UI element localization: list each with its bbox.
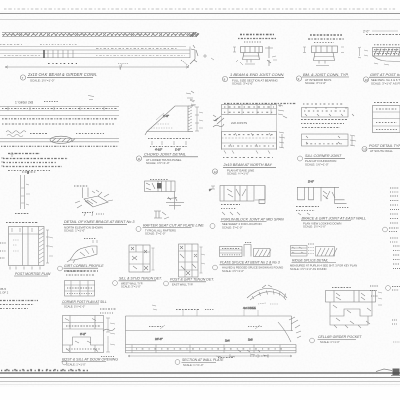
svg-text:3'-2": 3'-2" bbox=[80, 332, 86, 336]
detail 17 big square mortise plan bbox=[0, 223, 53, 270]
detail 19 title bbox=[113, 277, 162, 289]
svg-text:10: 10 bbox=[365, 78, 369, 82]
bottom left scale bar micro text bbox=[1, 369, 88, 371]
detail 13 purlin framing plan bbox=[209, 186, 265, 216]
detail 9 title bbox=[362, 144, 400, 153]
detail 1 roof plank hatched band bbox=[2, 33, 199, 37]
detail 17 title bbox=[0, 272, 51, 295]
svg-text:SCALE: ¾"=1'-0": SCALE: ¾"=1'-0" bbox=[227, 172, 249, 176]
detail 1 lower dimension line with arrows bbox=[5, 64, 189, 71]
top border line outer bbox=[0, 13, 400, 15]
svg-text:9": 9" bbox=[209, 188, 212, 192]
detail 7 title bbox=[212, 158, 276, 176]
svg-text:2'-0": 2'-0" bbox=[308, 180, 314, 184]
right edge dimension text column bbox=[390, 188, 399, 223]
svg-text:DETAIL OF KNEE BRACE AT BENT N: DETAIL OF KNEE BRACE AT BENT No 3 bbox=[64, 220, 135, 224]
svg-text:2x10 OAK BEAM & GIRDER CONN.: 2x10 OAK BEAM & GIRDER CONN. bbox=[27, 72, 97, 77]
svg-text:POST & SILL AT DOOR OPENING: POST & SILL AT DOOR OPENING bbox=[62, 357, 118, 361]
svg-text:SCALE: 1"=1'-0": SCALE: 1"=1'-0" bbox=[64, 229, 85, 233]
detail 27 long wall section top lines bbox=[126, 305, 302, 358]
detail 5 notes block bbox=[1, 152, 68, 171]
detail 19 stud section A bbox=[129, 245, 155, 272]
svg-text:SCALE: 1½"=1'-0": SCALE: 1½"=1'-0" bbox=[305, 162, 329, 166]
svg-text:RIDGE SPLICE DETAIL: RIDGE SPLICE DETAIL bbox=[292, 258, 328, 262]
detail 1 long girder beam elevation bbox=[0, 45, 190, 59]
right edge circled note 2 bbox=[370, 286, 400, 324]
detail 4 top dim text bbox=[363, 30, 398, 34]
detail 24 upper text bbox=[64, 271, 98, 275]
svg-text:SCALE: 1½"=1'-0": SCALE: 1½"=1'-0" bbox=[222, 269, 244, 273]
detail 12 rafter seat cut bbox=[145, 180, 185, 220]
svg-text:EAST WALL TYP.: EAST WALL TYP. bbox=[172, 283, 193, 287]
svg-text:2x4: 2x4 bbox=[225, 339, 230, 343]
bottom border line 3 bbox=[0, 381, 400, 383]
svg-text:2x10 BEAM AT NORTH BAY: 2x10 BEAM AT NORTH BAY bbox=[223, 163, 273, 167]
svg-text:SCALE: 3"=1'-0": SCALE: 3"=1'-0" bbox=[121, 285, 141, 289]
detail 1 right end bracket bbox=[181, 45, 198, 66]
stray plus mark bbox=[203, 54, 214, 60]
detail 11 corner bracket bbox=[74, 186, 113, 216]
detail 7 framed girder top text bbox=[224, 103, 296, 105]
bottom border line 2 bbox=[0, 377, 400, 379]
detail 8 mid text band bbox=[301, 120, 347, 128]
bottom border line 1 bbox=[0, 372, 400, 374]
detail 23 curved knee fan bbox=[243, 285, 287, 310]
svg-text:11: 11 bbox=[138, 157, 141, 161]
detail 24 small sill rect bbox=[65, 281, 96, 297]
detail 4 title bbox=[363, 73, 400, 85]
detail 9 right post top dim bbox=[374, 102, 398, 104]
detail 5 upper sill beam dim text bbox=[15, 101, 58, 105]
svg-text:BRACE & GIRT JOINT AT EAST WAL: BRACE & GIRT JOINT AT EAST WALL bbox=[302, 216, 367, 220]
detail 21 title bbox=[213, 261, 284, 273]
detail 2 joist section block bbox=[241, 46, 278, 66]
svg-text:BM. & JOIST CONN. TYP.: BM. & JOIST CONN. TYP. bbox=[303, 72, 349, 77]
detail 7 break squiggles left bbox=[213, 115, 224, 127]
svg-text:SILL CORNER JOINT: SILL CORNER JOINT bbox=[305, 154, 342, 158]
detail 25 title bbox=[62, 357, 119, 366]
detail 27 title bbox=[175, 356, 269, 367]
svg-text:SCALE: 1½"=1'-0" AS FOUND: SCALE: 1½"=1'-0" AS FOUND bbox=[290, 267, 326, 271]
detail 8 lower sill rect bbox=[302, 134, 357, 146]
svg-text:SILL & STUD TENON DET.: SILL & STUD TENON DET. bbox=[119, 277, 162, 281]
svg-text:AT SOUTH WALL: AT SOUTH WALL bbox=[370, 149, 393, 153]
top caption micro-text strip bbox=[4, 8, 396, 10]
svg-text:SCALE: 1½"=1'-0": SCALE: 1½"=1'-0" bbox=[30, 79, 54, 83]
svg-text:24'-6": 24'-6" bbox=[155, 337, 163, 341]
svg-text:35-5: 35-5 bbox=[0, 287, 6, 291]
svg-text:12: 12 bbox=[214, 170, 218, 174]
svg-text:PURLIN BLOCK JOINT AT MID SPAN: PURLIN BLOCK JOINT AT MID SPAN bbox=[221, 217, 284, 221]
detail 6 right dim column bbox=[190, 99, 203, 131]
detail 6 chord joint gusset wedge bbox=[145, 106, 193, 135]
detail 29 sill assembly plan bbox=[326, 288, 383, 329]
detail 20 title bbox=[164, 278, 215, 287]
svg-text:2x8 JOISTS: 2x8 JOISTS bbox=[231, 121, 247, 125]
svg-text:SECTION AT WALL PLATE: SECTION AT WALL PLATE bbox=[182, 358, 224, 362]
detail 27 left edge notes bbox=[100, 309, 116, 357]
svg-text:SCALE: 3"=1'-0": SCALE: 3"=1'-0" bbox=[305, 81, 326, 85]
svg-text:CELLAR GIRDER POCKET: CELLAR GIRDER POCKET bbox=[318, 335, 362, 339]
detail 12 title bbox=[136, 223, 204, 235]
detail 1 title: 2x10 OAK BEAM TO GIRDER bbox=[20, 72, 97, 83]
detail 4 beam block bbox=[358, 47, 400, 65]
svg-text:CORNER POST PLAN AT SILL: CORNER POST PLAN AT SILL bbox=[62, 300, 107, 304]
svg-text:GIRT AT POST #4: GIRT AT POST #4 bbox=[370, 73, 400, 77]
svg-text:1 BEAM & END JOIST CONN.: 1 BEAM & END JOIST CONN. bbox=[230, 72, 284, 77]
detail 2 joist end upper text bbox=[238, 35, 276, 43]
detail 13 title bbox=[210, 217, 284, 229]
detail 24 title bbox=[62, 300, 107, 309]
svg-text:SCALE: 1"=1'-0": SCALE: 1"=1'-0" bbox=[320, 340, 340, 344]
detail 22 splice elevation B bbox=[291, 244, 338, 256]
detail 3 joist section block bbox=[303, 46, 344, 66]
svg-text:POST & GIRT TENON DET.: POST & GIRT TENON DET. bbox=[170, 278, 214, 282]
detail 20 stud section B bbox=[179, 244, 206, 277]
stray dims above wedge bbox=[88, 91, 195, 106]
detail 18 title bbox=[58, 264, 105, 273]
svg-text:SCALE: 1½"=1'-0": SCALE: 1½"=1'-0" bbox=[303, 225, 326, 229]
detail 6 lower marks bbox=[148, 139, 190, 152]
svg-text:RAFTER SEAT CUT AT PLATE LINE: RAFTER SEAT CUT AT PLATE LINE bbox=[143, 223, 204, 227]
detail 8 title bbox=[298, 154, 346, 166]
detail 7 mid note bbox=[222, 115, 277, 151]
detail 2 title: 1 BEAM AND END JOIST CONN bbox=[222, 72, 284, 85]
detail 29 title bbox=[310, 335, 363, 344]
right edge dimension text column lower bbox=[393, 246, 400, 269]
detail 11 title bbox=[63, 220, 135, 232]
detail 7 framed girder lower band bbox=[222, 132, 286, 154]
svg-text:SCALE: 3"=1'-0" AS FND: SCALE: 3"=1'-0" AS FND bbox=[371, 81, 400, 85]
svg-text:SCALE: ¾"=1'-0": SCALE: ¾"=1'-0" bbox=[183, 363, 203, 367]
right edge circled note 1 bbox=[383, 227, 399, 242]
svg-text:2'-6": 2'-6" bbox=[163, 114, 169, 118]
svg-text:1 OF 2: 1 OF 2 bbox=[0, 291, 9, 295]
detail 5 upper sill beam body bbox=[0, 107, 119, 125]
detail 9 right post rect bbox=[373, 106, 400, 133]
bottom border line 4 faint bbox=[0, 384, 400, 386]
detail 14 brace framing plan bbox=[296, 180, 349, 216]
svg-text:SCALE: 3"=1'-0": SCALE: 3"=1'-0" bbox=[222, 225, 242, 229]
svg-text:13: 13 bbox=[363, 147, 367, 151]
svg-text:SCALE: 1½"=1'-0": SCALE: 1½"=1'-0" bbox=[64, 304, 85, 308]
detail 8 upper plate rect bbox=[302, 104, 355, 117]
svg-text:2x6: 2x6 bbox=[248, 338, 253, 342]
svg-text:CHORD JOINT DETAIL: CHORD JOINT DETAIL bbox=[144, 152, 186, 157]
detail 2 dim marks bbox=[233, 47, 243, 65]
detail 14 title bbox=[301, 216, 366, 228]
svg-text:SCALE: 3"=1'-0": SCALE: 3"=1'-0" bbox=[145, 232, 165, 236]
svg-text:POST DETAIL TYP.: POST DETAIL TYP. bbox=[369, 144, 400, 148]
detail 21 splice elevation bbox=[220, 243, 272, 257]
svg-text:2'-0": 2'-0" bbox=[363, 30, 369, 34]
detail 7 framed girder upper band bbox=[222, 104, 288, 118]
detail 5 lower scarf joint beam bbox=[0, 131, 119, 147]
svg-text:4x4 KNEE: 4x4 KNEE bbox=[243, 306, 256, 310]
detail 18 corbel profile bbox=[67, 239, 97, 264]
svg-text:SCALE: 1½"=1'-0": SCALE: 1½"=1'-0" bbox=[146, 161, 170, 165]
svg-text:PLATE SPLICE AT BENT No 2 & No: PLATE SPLICE AT BENT No 2 & No 3 bbox=[220, 261, 280, 265]
svg-text:SCALE: 3"=1'-0": SCALE: 3"=1'-0" bbox=[232, 82, 253, 86]
bottom right corner mark bbox=[376, 342, 400, 376]
svg-text:SCALE: 1"=1'-0": SCALE: 1"=1'-0" bbox=[66, 362, 86, 366]
svg-text:GIRT CORBEL PROFILE: GIRT CORBEL PROFILE bbox=[64, 264, 104, 268]
detail 27 top right dim text bbox=[176, 309, 214, 311]
detail 3 title: BEAM TO JOIST CONN bbox=[296, 72, 349, 85]
detail 6 title: CHORD JOINT DETAIL bbox=[136, 152, 198, 165]
detail 22 title bbox=[290, 258, 357, 270]
svg-text:POST MORTISE PLAN: POST MORTISE PLAN bbox=[15, 272, 51, 276]
detail 10 tall post elevation bbox=[15, 171, 36, 214]
detail 3 joist upper text bbox=[308, 35, 344, 43]
detail 4 upper text rows bbox=[366, 35, 400, 45]
top border line inner bbox=[0, 19, 400, 21]
detail 25 door frame section bbox=[63, 316, 116, 353]
left margin notes block bbox=[0, 301, 38, 309]
svg-text:1' Girder 2x8: 1' Girder 2x8 bbox=[15, 101, 33, 105]
